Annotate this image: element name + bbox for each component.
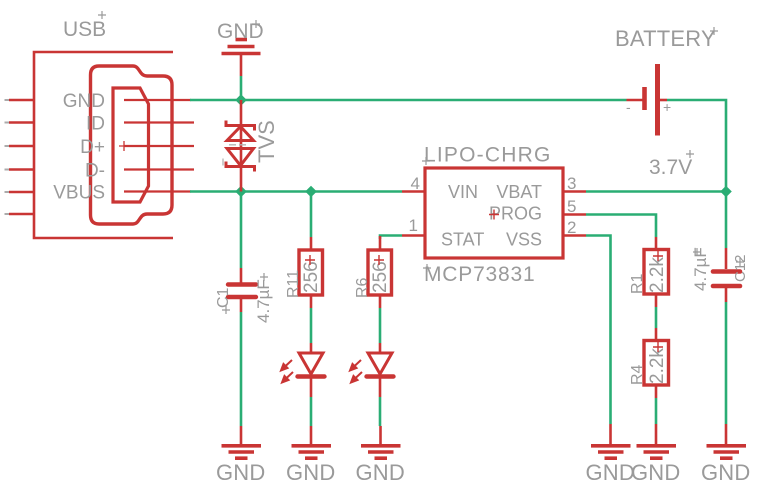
resistor R1 pin bottom xyxy=(655,294,658,307)
resistor R4 pin bottom xyxy=(655,385,658,398)
svg-text:R11: R11 xyxy=(285,270,302,298)
svg-text:VBUS: VBUS xyxy=(53,183,105,204)
wire LED2 to GND xyxy=(379,397,382,426)
IC U1 pin 5 PROG xyxy=(563,213,586,216)
svg-text:LIPO-CHRG: LIPO-CHRG xyxy=(424,144,551,167)
svg-text:VBAT: VBAT xyxy=(496,182,542,202)
svg-text:256: 256 xyxy=(370,261,391,293)
svg-text:D+: D+ xyxy=(80,137,105,158)
wire LED1 to GND xyxy=(310,397,313,426)
wire C1 to GND xyxy=(240,312,243,426)
svg-text:PROG: PROG xyxy=(489,204,542,224)
svg-text:USB: USB xyxy=(63,18,106,41)
USB pin GND xyxy=(124,99,191,101)
IC U1 pin 1 STAT xyxy=(402,234,425,237)
svg-text:BATTERY: BATTERY xyxy=(615,26,716,51)
R1 value origin cross xyxy=(653,251,663,261)
ground symbol GND under C12 xyxy=(701,424,751,485)
USB pin ID xyxy=(124,121,194,123)
USB pin D+ xyxy=(124,145,194,147)
C1 value origin cross xyxy=(260,273,268,281)
capacitor C1 pin top xyxy=(240,268,243,283)
svg-text:TVS: TVS xyxy=(254,120,279,163)
battery minus plate xyxy=(642,87,647,110)
supply symbol GND top xyxy=(222,40,261,54)
svg-text:3.7V: 3.7V xyxy=(649,156,692,179)
wire right rail to C12 xyxy=(725,192,728,249)
IC origin cross on PROG xyxy=(489,210,499,220)
capacitor C1 pin bottom xyxy=(240,298,243,312)
USB left stub pad marks xyxy=(5,100,11,214)
LED2 cathode bar xyxy=(367,374,394,378)
battery name origin cross xyxy=(710,27,718,35)
svg-text:C1: C1 xyxy=(215,287,232,308)
svg-text:VIN: VIN xyxy=(448,182,478,202)
svg-text:MCP73831: MCP73831 xyxy=(424,263,535,286)
battery value origin cross xyxy=(686,150,694,158)
resistor R1 body xyxy=(644,250,669,295)
IC U1 pin 3 VBAT xyxy=(563,190,586,193)
svg-text:2.2k: 2.2k xyxy=(647,348,668,384)
R11 value origin cross xyxy=(305,255,315,265)
svg-text:GND: GND xyxy=(216,460,266,485)
USB pin D- xyxy=(124,168,194,170)
USB left stub pins xyxy=(9,100,34,214)
wire R1 to R4 xyxy=(655,307,658,328)
LED2 pin bottom xyxy=(379,378,382,397)
svg-text:GND: GND xyxy=(63,91,105,112)
battery pin right xyxy=(659,99,667,102)
svg-text:4: 4 xyxy=(411,174,420,193)
svg-text:5: 5 xyxy=(567,197,576,216)
junction VBUS x311 xyxy=(305,186,317,198)
junction VBUS x241 xyxy=(235,186,247,198)
svg-text:GND: GND xyxy=(356,460,406,485)
svg-text:R4: R4 xyxy=(629,364,646,385)
C1 origin cross xyxy=(222,306,230,314)
GND top symbol pin xyxy=(240,55,243,76)
IC U1 MCP73831 body xyxy=(425,168,563,258)
capacitor C1 plates xyxy=(228,285,256,298)
svg-text:4.7µF: 4.7µF xyxy=(691,247,710,291)
LED2 pin top xyxy=(379,343,382,353)
ground symbol GND under C1 xyxy=(216,426,266,485)
LED1 pin bottom xyxy=(310,378,313,397)
IC U1 pin 4 VIN xyxy=(402,190,425,193)
svg-text:2: 2 xyxy=(567,218,576,237)
IC value origin cross xyxy=(423,264,431,272)
wire STAT net pin1 xyxy=(380,236,402,240)
LED1 triangle xyxy=(299,353,323,374)
wire GND net vertical into top rail xyxy=(240,76,243,100)
svg-text:4.7µF: 4.7µF xyxy=(254,279,273,323)
LED2 emission arrows xyxy=(350,360,362,383)
connector USB body xyxy=(34,52,173,238)
TVS hidden value text marks xyxy=(223,145,246,166)
svg-text:3: 3 xyxy=(567,174,576,193)
wire R6 to LED2 xyxy=(379,308,382,343)
LED1 pin top xyxy=(310,343,313,353)
svg-text:STAT: STAT xyxy=(441,230,484,250)
wire top rail USB GND to battery xyxy=(190,99,627,102)
IC name origin cross xyxy=(422,157,430,165)
svg-text:ID: ID xyxy=(86,114,105,135)
wire VSS net pin2 to GND xyxy=(586,236,611,425)
svg-text:GND: GND xyxy=(586,460,636,485)
USB name origin cross xyxy=(98,11,106,19)
battery plus plate xyxy=(655,64,660,136)
svg-text:R1: R1 xyxy=(629,273,646,294)
USB part origin cross xyxy=(119,141,129,151)
wire battery plus to right rail xyxy=(667,100,726,192)
svg-text:VSS: VSS xyxy=(506,230,542,250)
svg-text:GND: GND xyxy=(701,460,751,485)
svg-text:+: + xyxy=(663,99,671,115)
resistor R1 pin top xyxy=(655,237,658,250)
svg-text:GND: GND xyxy=(286,460,336,485)
svg-text:256: 256 xyxy=(301,261,322,293)
LED1 emission arrows xyxy=(281,360,293,383)
capacitor C12 plates xyxy=(713,272,740,287)
LED2 triangle xyxy=(368,353,392,374)
battery pin left xyxy=(627,99,644,102)
C12 name origin cross xyxy=(736,258,744,266)
resistor R11 pin bottom xyxy=(310,295,313,308)
resistor R4 body xyxy=(644,341,669,386)
junction VBAT right rail xyxy=(720,186,732,198)
capacitor C12 pin bottom xyxy=(725,287,728,302)
ground symbol GND under R4 xyxy=(631,424,681,485)
wire VBUS net xyxy=(190,190,402,193)
resistor R6 body xyxy=(368,250,392,295)
capacitor C12 pin top xyxy=(725,248,728,269)
IC U1 pin 2 VSS xyxy=(563,234,586,237)
wire R11 branch upper xyxy=(310,192,313,238)
resistor R6 pin top xyxy=(379,236,382,250)
GND top origin cross xyxy=(252,20,260,28)
R6 value origin cross xyxy=(374,255,384,265)
resistor R11 pin top xyxy=(310,237,313,250)
svg-text:GND: GND xyxy=(631,460,681,485)
junction at GND rail x241 xyxy=(235,94,247,106)
wire VBAT net pin3 to right rail xyxy=(586,190,726,193)
TVS diode symbol xyxy=(226,121,255,172)
TVS diode vertical pin xyxy=(240,100,243,192)
wire R4 to GND xyxy=(655,398,658,424)
resistor R6 pin bottom xyxy=(379,295,382,308)
ground symbol GND under LED1 xyxy=(286,426,336,485)
C12 value origin cross xyxy=(693,248,701,256)
R4 value origin cross xyxy=(653,342,663,352)
svg-text:R6: R6 xyxy=(354,277,371,298)
wire C12 to GND xyxy=(725,302,728,424)
ground symbol GND under LED2 xyxy=(356,426,406,485)
svg-text:-: - xyxy=(626,99,631,115)
ground symbol GND under pin2 wire xyxy=(586,424,636,485)
wire C1 branch upper xyxy=(240,192,243,269)
svg-text:D-: D- xyxy=(85,161,105,182)
svg-text:1: 1 xyxy=(409,216,418,235)
resistor R4 pin top xyxy=(655,328,658,341)
resistor R11 body xyxy=(299,250,323,295)
wire PROG net pin5 to R1 xyxy=(586,215,656,238)
svg-text:2.2k: 2.2k xyxy=(647,257,668,293)
wire R11 to LED1 xyxy=(310,308,313,343)
LED1 cathode bar xyxy=(298,374,325,378)
USB pin VBUS xyxy=(124,190,191,192)
